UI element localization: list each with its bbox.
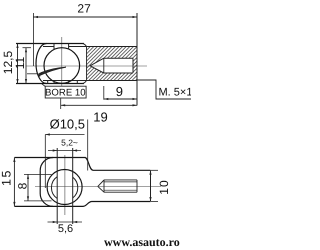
- ball circle: [44, 48, 80, 84]
- dim 27 left extension: [32, 13, 34, 66]
- body right edge / extension line: [136, 13, 138, 106]
- step top fillet: [83, 44, 87, 47]
- svg-text:5,2~: 5,2~: [61, 138, 78, 148]
- projection line between views: [87, 120, 89, 171]
- housing left end arc: [36, 44, 46, 84]
- housing top edge: [15, 157, 86, 159]
- svg-text:15: 15: [0, 169, 14, 186]
- retaining clip sliver: [39, 67, 66, 76]
- bore edge ticks bottom: [48, 81, 78, 84]
- step bottom fillet: [83, 81, 87, 84]
- svg-text:5,6: 5,6: [58, 223, 73, 235]
- shank top edge bottom view: [93, 169, 151, 171]
- svg-text:27: 27: [77, 2, 91, 16]
- hidden hole top: [104, 179, 137, 181]
- threaded hole cone bottom: [90, 66, 104, 73]
- dim 19 arrow right: [133, 104, 138, 106]
- slot left wall: [53, 44, 55, 50]
- threaded hole cone top: [90, 58, 104, 66]
- dim 15 line: [13, 158, 15, 207]
- dim 19 arrow left: [61, 104, 65, 106]
- housing bottom edge: [15, 205, 84, 207]
- hidden thread minor bottom: [104, 189, 137, 191]
- clip leader line: [27, 73, 39, 75]
- dim 15 arrow top: [13, 158, 15, 163]
- dim 19 left extension: [60, 99, 62, 110]
- socket opening circle right arc: [73, 177, 78, 198]
- M 5x1 leader: [138, 80, 192, 99]
- dim 8 top extension: [24, 173, 52, 175]
- fillet bottom-right to shank: [83, 202, 92, 207]
- svg-text:10: 10: [157, 179, 171, 194]
- hidden hole bottom: [104, 191, 137, 193]
- dim 10 arrow bottom: [149, 197, 151, 202]
- dimension 9 line: [104, 98, 137, 100]
- svg-text:19: 19: [93, 110, 107, 125]
- svg-text:Ø10,5: Ø10,5: [50, 117, 85, 132]
- dim 9 arrow right: [133, 98, 138, 100]
- housing top edge: [16, 43, 84, 45]
- slot right wall: [68, 44, 70, 50]
- hidden hole opening vertical: [103, 180, 105, 192]
- hole bottom line: [104, 72, 133, 74]
- dia 10,5 leader arrow: [45, 133, 50, 135]
- dim 11 top extension: [23, 47, 32, 49]
- dimension 12,5 line: [17, 44, 19, 84]
- dim 27 arrow right: [133, 16, 138, 18]
- centerline vertical top view: [61, 37, 63, 86]
- svg-text:M. 5×1: M. 5×1: [159, 87, 192, 99]
- centerline horizontal bottom view: [35, 186, 161, 188]
- dim 8 arrow top: [27, 174, 29, 179]
- dim 12,5 arrow top: [16, 44, 18, 49]
- dim 5,2 arrow left: [53, 149, 58, 151]
- dim 9 arrow left: [104, 98, 109, 100]
- dim 5,2 arrow right: [73, 149, 78, 151]
- dim 12,5 arrow bottom: [16, 79, 18, 84]
- housing bottom edge: [16, 83, 84, 85]
- centerline vertical bottom view: [64, 155, 66, 215]
- dim 15 arrow bottom: [13, 202, 15, 207]
- shank bottom edge bottom view: [92, 201, 151, 203]
- hatched section fill: [85, 44, 139, 82]
- dim 11 arrow bottom: [25, 79, 27, 84]
- dia 10,5 underline leader: [45, 134, 84, 136]
- dia 10,5 leader vertical: [44, 135, 46, 189]
- centerline horizontal top view: [26, 65, 147, 67]
- housing corner arc top-left: [40, 158, 53, 171]
- hidden hole end vertical: [136, 180, 138, 192]
- svg-text:9: 9: [116, 84, 123, 99]
- dim 11 arrow top: [25, 48, 27, 53]
- clip hook: [39, 73, 42, 76]
- dimension 11 line: [25, 48, 27, 84]
- dim 5,6 arrow left: [53, 221, 58, 223]
- hole opening vertical: [103, 58, 105, 73]
- dim 10 arrow top: [149, 170, 151, 175]
- dim 8 bottom extension: [24, 200, 52, 202]
- dimension 19 line: [61, 104, 137, 106]
- slot walls bottom segments: [54, 81, 69, 84]
- hidden cone tip: [98, 180, 104, 192]
- svg-text:www.asauto.ro: www.asauto.ro: [104, 235, 180, 249]
- hole end vertical: [132, 58, 134, 73]
- svg-text:BORE 10: BORE 10: [45, 88, 86, 99]
- dim 5,6 line: [48, 221, 83, 223]
- socket opening circle left arc: [51, 177, 57, 199]
- fillet top-right to shank: [85, 158, 93, 171]
- dim 5,2 line: [48, 150, 81, 152]
- hidden thread minor top: [104, 181, 137, 183]
- svg-text:8: 8: [16, 182, 30, 189]
- shank right edge: [150, 170, 152, 201]
- section boundary: [86, 47, 88, 81]
- dim 27 arrow left: [34, 16, 39, 18]
- hole top line: [104, 57, 133, 59]
- dim 5,6 arrow right: [73, 221, 78, 223]
- slot column left wall: [56, 148, 58, 224]
- svg-text:11: 11: [13, 56, 27, 69]
- dim 8 arrow bottom: [27, 196, 29, 201]
- dim 9 left extension: [103, 86, 105, 100]
- dim 8 line: [27, 174, 29, 201]
- BORE 10 leader: [42, 84, 46, 87]
- dim 10 extension bottom: [151, 201, 158, 203]
- housing corner arc bottom-left: [40, 194, 53, 207]
- slot column right wall: [72, 148, 74, 224]
- shank top tangent line: [43, 46, 138, 48]
- shank bottom tangent line: [43, 80, 138, 82]
- ball circle bottom view: [47, 170, 82, 205]
- housing left edge: [39, 171, 41, 194]
- BORE 10 box: [45, 86, 86, 98]
- dimension 27 line: [34, 16, 138, 18]
- dim 10 extension top: [151, 169, 158, 171]
